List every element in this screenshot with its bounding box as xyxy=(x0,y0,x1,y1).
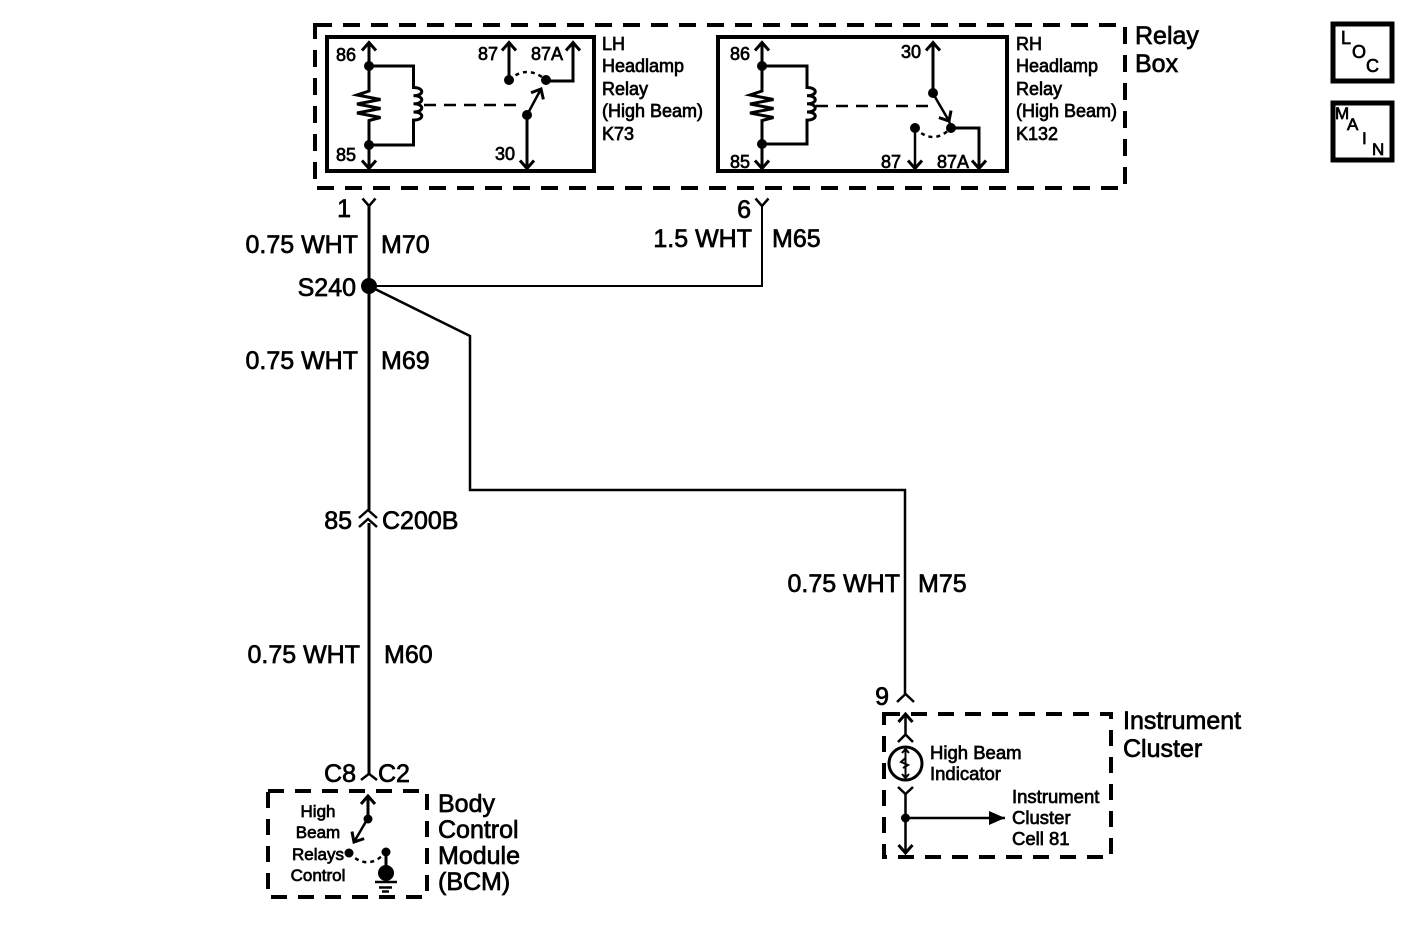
svg-text:Headlamp: Headlamp xyxy=(1016,56,1098,76)
BCM dashed box xyxy=(268,791,427,897)
svg-text:87A: 87A xyxy=(937,152,969,172)
svg-text:K73: K73 xyxy=(602,124,634,144)
K73 coil bottom node xyxy=(364,140,374,150)
svg-text:LH: LH xyxy=(602,34,625,54)
BCM ground ball xyxy=(378,865,394,881)
LOC box xyxy=(1333,24,1392,81)
cluster wire xyxy=(904,794,907,818)
K73 pin 86 arrow xyxy=(368,43,371,67)
relay K132 box xyxy=(718,37,1007,171)
K73 coil xyxy=(369,66,422,145)
K73 pin 87A contact node xyxy=(541,75,551,85)
wire S240 to pin 6 xyxy=(369,206,762,286)
svg-text:M65: M65 xyxy=(772,225,821,253)
svg-text:Relay: Relay xyxy=(1016,79,1062,99)
splice S240 node xyxy=(361,278,377,294)
svg-text:Control: Control xyxy=(438,816,519,844)
svg-text:Body: Body xyxy=(438,790,495,818)
K73 coil-switch dashed link xyxy=(424,104,522,107)
svg-text:K132: K132 xyxy=(1016,124,1058,144)
svg-text:I: I xyxy=(1362,129,1367,148)
svg-text:0.75 WHT: 0.75 WHT xyxy=(247,641,360,669)
cluster cell arrow xyxy=(906,817,1006,820)
pin 6 connector fork xyxy=(756,199,769,207)
K73 pin 87 arrow xyxy=(508,43,511,81)
K132 switch pivot node xyxy=(928,88,938,98)
svg-text:87: 87 xyxy=(881,152,901,172)
svg-text:Relay: Relay xyxy=(1135,22,1199,50)
svg-text:6: 6 xyxy=(737,196,751,224)
pin 9 connector fork xyxy=(897,694,914,702)
svg-text:C: C xyxy=(1366,56,1379,76)
connector C200B symbol xyxy=(359,510,377,527)
svg-text:M70: M70 xyxy=(381,231,430,259)
svg-text:Indicator: Indicator xyxy=(930,763,1001,784)
K132 pin 87A contact node xyxy=(946,123,956,133)
svg-text:Cell 81: Cell 81 xyxy=(1012,828,1070,849)
K73 87-87A dashed arc xyxy=(509,72,546,80)
K132 87-87A dashed arc xyxy=(915,128,951,137)
K73 pin 85 arrow xyxy=(368,145,371,169)
BCM switch arm xyxy=(354,818,368,842)
svg-text:86: 86 xyxy=(336,45,356,65)
svg-text:86: 86 xyxy=(730,44,750,64)
svg-text:M69: M69 xyxy=(381,347,430,375)
K132 coil bottom node xyxy=(757,139,767,149)
svg-text:Cluster: Cluster xyxy=(1012,807,1071,828)
svg-text:85: 85 xyxy=(730,152,750,172)
cluster down arrow xyxy=(904,818,907,853)
svg-text:S240: S240 xyxy=(298,274,356,302)
BCM ground contact node xyxy=(382,848,391,857)
svg-text:High: High xyxy=(301,802,336,821)
K73 switch arm xyxy=(527,89,541,115)
svg-text:O: O xyxy=(1352,42,1366,62)
K132 switch arm xyxy=(933,94,949,122)
svg-text:Module: Module xyxy=(438,842,520,870)
svg-text:Relay: Relay xyxy=(602,79,648,99)
svg-text:Beam: Beam xyxy=(296,823,340,842)
svg-text:High Beam: High Beam xyxy=(930,742,1022,763)
svg-text:C8: C8 xyxy=(324,760,356,788)
svg-text:87: 87 xyxy=(478,44,498,64)
cluster input arrow xyxy=(904,714,907,734)
lamp filament xyxy=(901,749,909,778)
K73 pin 87 contact node xyxy=(504,75,514,85)
svg-text:Relays: Relays xyxy=(292,845,344,864)
relay box (outer dashed enclosure) xyxy=(315,25,1125,188)
K73 pin 87A wire and arrow xyxy=(546,43,573,82)
svg-text:Instrument: Instrument xyxy=(1123,707,1241,735)
svg-text:Box: Box xyxy=(1135,50,1179,78)
BCM output arrow xyxy=(367,796,370,819)
BCM switch contact node xyxy=(345,849,354,858)
svg-text:30: 30 xyxy=(901,42,921,62)
BCM ground symbol xyxy=(375,882,397,892)
svg-text:(High Beam): (High Beam) xyxy=(1016,101,1117,121)
svg-text:1: 1 xyxy=(337,195,351,223)
svg-text:A: A xyxy=(1347,115,1359,134)
K73 pin 30 arrow xyxy=(526,115,529,169)
BCM ground stem xyxy=(385,852,388,868)
wire M69 xyxy=(368,286,371,510)
BCM dashed arc xyxy=(349,852,386,862)
K132 coil-switch dashed link xyxy=(816,105,928,108)
wire M70 xyxy=(368,206,371,286)
svg-text:0.75 WHT: 0.75 WHT xyxy=(787,570,900,598)
svg-text:30: 30 xyxy=(495,144,515,164)
svg-text:Headlamp: Headlamp xyxy=(602,56,684,76)
svg-text:Instrument: Instrument xyxy=(1012,786,1099,807)
K132 coil top node xyxy=(757,61,767,71)
BCM switch top node xyxy=(364,815,373,824)
svg-text:L: L xyxy=(1341,28,1351,48)
svg-text:85: 85 xyxy=(336,145,356,165)
svg-text:9: 9 xyxy=(875,683,889,711)
svg-text:0.75 WHT: 0.75 WHT xyxy=(245,231,358,259)
svg-text:C2: C2 xyxy=(378,760,410,788)
cluster input chevron xyxy=(898,735,913,743)
svg-text:1.5 WHT: 1.5 WHT xyxy=(653,225,752,253)
cluster junction node xyxy=(901,814,910,823)
K132 pin 87A wire and arrow xyxy=(951,128,979,169)
svg-text:85: 85 xyxy=(324,507,352,535)
K132 pin 87 contact node xyxy=(910,123,920,133)
pin 1 connector fork xyxy=(363,199,376,207)
BCM connector fork xyxy=(361,774,377,780)
svg-text:(High Beam): (High Beam) xyxy=(602,101,703,121)
svg-text:Control: Control xyxy=(291,866,346,885)
svg-text:(BCM): (BCM) xyxy=(438,868,510,896)
wire S240 branch diagonal xyxy=(369,286,905,694)
svg-text:0.75 WHT: 0.75 WHT xyxy=(245,347,358,375)
K132 pin 30 arrow xyxy=(932,43,935,94)
svg-text:N: N xyxy=(1372,140,1384,159)
MAIN box xyxy=(1333,103,1392,160)
svg-text:87A: 87A xyxy=(531,44,563,64)
relay K73 box xyxy=(327,37,594,171)
K132 pin 85 arrow xyxy=(761,144,764,169)
K73 switch pivot node xyxy=(522,110,532,120)
lamp output chevron xyxy=(898,787,913,794)
K73 coil top node xyxy=(364,61,374,71)
wire M60 xyxy=(368,523,371,774)
instrument cluster dashed box xyxy=(884,714,1111,857)
svg-text:M75: M75 xyxy=(918,570,967,598)
high beam indicator lamp xyxy=(889,747,922,780)
K73 resistor xyxy=(357,66,381,145)
svg-text:M60: M60 xyxy=(384,641,433,669)
svg-text:C200B: C200B xyxy=(382,507,458,535)
K132 pin 86 arrow xyxy=(761,43,764,67)
K132 resistor xyxy=(750,66,774,144)
K132 coil xyxy=(762,66,815,144)
svg-text:Cluster: Cluster xyxy=(1123,735,1202,763)
svg-text:RH: RH xyxy=(1016,34,1042,54)
K132 pin 87 arrow xyxy=(914,128,917,169)
